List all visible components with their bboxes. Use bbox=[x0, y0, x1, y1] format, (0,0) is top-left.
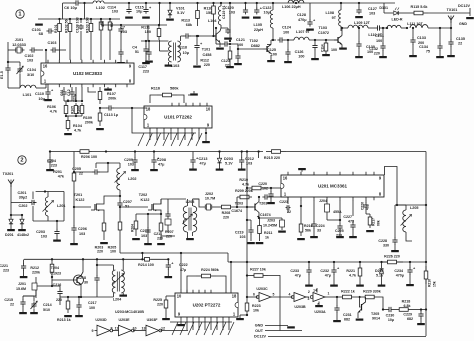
svg-text:R116: R116 bbox=[151, 87, 160, 91]
svg-text:T101: T101 bbox=[202, 48, 210, 52]
svg-text:39μ2: 39μ2 bbox=[19, 196, 27, 200]
svg-text:103: 103 bbox=[369, 12, 375, 16]
svg-text:C209: C209 bbox=[124, 158, 133, 162]
svg-text:C218: C218 bbox=[77, 276, 86, 280]
svg-text:C219: C219 bbox=[235, 231, 244, 235]
svg-text:C223: C223 bbox=[279, 200, 288, 204]
svg-text:47μ: 47μ bbox=[325, 274, 331, 278]
svg-text:103: 103 bbox=[239, 235, 245, 239]
svg-text:R112: R112 bbox=[200, 59, 209, 63]
svg-text:R213 1k: R213 1k bbox=[57, 318, 72, 322]
svg-text:C233: C233 bbox=[290, 269, 299, 273]
svg-text:103: 103 bbox=[41, 235, 47, 239]
svg-text:223: 223 bbox=[143, 70, 149, 74]
svg-text:22μH: 22μH bbox=[254, 28, 263, 32]
svg-text:R211: R211 bbox=[264, 231, 272, 235]
svg-text:100: 100 bbox=[331, 48, 337, 52]
svg-text:C135: C135 bbox=[456, 37, 465, 41]
svg-text:U203:MC14010B: U203:MC14010B bbox=[115, 310, 144, 314]
svg-text:C1674: C1674 bbox=[260, 213, 271, 217]
svg-text:R221: R221 bbox=[346, 269, 355, 273]
svg-text:33: 33 bbox=[317, 229, 321, 233]
svg-text:14: 14 bbox=[313, 289, 317, 293]
svg-text:200k: 200k bbox=[108, 97, 117, 101]
svg-text:47k: 47k bbox=[58, 175, 65, 179]
svg-text:C214: C214 bbox=[43, 303, 52, 307]
svg-text:R106: R106 bbox=[47, 105, 56, 109]
svg-text:T102: T102 bbox=[249, 39, 257, 43]
svg-text:C114: C114 bbox=[320, 44, 324, 52]
svg-text:L105: L105 bbox=[254, 23, 262, 27]
svg-text:8: 8 bbox=[110, 327, 112, 331]
svg-text:C123: C123 bbox=[221, 59, 230, 63]
svg-text:22: 22 bbox=[287, 210, 291, 214]
svg-text:220: 220 bbox=[56, 298, 62, 302]
svg-text:220: 220 bbox=[374, 52, 380, 56]
svg-text:U203C: U203C bbox=[256, 287, 268, 291]
svg-text:C1972: C1972 bbox=[318, 31, 329, 35]
svg-text:470μ: 470μ bbox=[298, 18, 307, 22]
svg-text:D201: D201 bbox=[5, 233, 14, 237]
svg-text:C124: C124 bbox=[282, 26, 292, 30]
svg-text:T201: T201 bbox=[74, 193, 82, 197]
svg-text:10: 10 bbox=[132, 327, 136, 331]
svg-text:C127: C127 bbox=[368, 7, 377, 11]
svg-text:T203: T203 bbox=[235, 202, 243, 206]
svg-text:16: 16 bbox=[43, 64, 48, 69]
svg-text:R206 100: R206 100 bbox=[81, 155, 97, 159]
svg-text:200k: 200k bbox=[85, 121, 94, 125]
svg-text:4.7k: 4.7k bbox=[349, 274, 357, 278]
svg-text:10μ: 10μ bbox=[264, 11, 271, 15]
svg-text:C205: C205 bbox=[72, 167, 81, 171]
svg-text:C120: C120 bbox=[225, 6, 234, 10]
svg-text:R218: R218 bbox=[402, 300, 411, 304]
svg-text:TX201: TX201 bbox=[3, 172, 14, 176]
svg-text:18: 18 bbox=[232, 294, 237, 299]
svg-text:C211: C211 bbox=[154, 232, 162, 236]
svg-text:C206: C206 bbox=[78, 227, 87, 231]
svg-text:U203D: U203D bbox=[95, 318, 107, 322]
svg-text:220k: 220k bbox=[32, 271, 41, 275]
svg-text:C104: C104 bbox=[27, 68, 37, 72]
svg-text:C225: C225 bbox=[335, 229, 344, 233]
svg-text:1: 1 bbox=[18, 12, 21, 18]
svg-text:R216: R216 bbox=[427, 279, 431, 287]
svg-text:22: 22 bbox=[10, 303, 14, 307]
svg-text:455A: 455A bbox=[333, 210, 342, 214]
svg-text:OUT: OUT bbox=[255, 329, 264, 333]
svg-text:C212: C212 bbox=[245, 157, 254, 161]
svg-text:L110 9T: L110 9T bbox=[368, 33, 382, 37]
svg-text:C215: C215 bbox=[4, 298, 13, 302]
svg-text:J202: J202 bbox=[205, 192, 213, 196]
svg-text:C132: C132 bbox=[369, 47, 378, 51]
svg-text:100: 100 bbox=[298, 55, 304, 59]
svg-text:103: 103 bbox=[27, 59, 33, 63]
svg-text:10μ: 10μ bbox=[183, 51, 190, 55]
svg-text:J204: J204 bbox=[319, 199, 327, 203]
svg-text:100: 100 bbox=[110, 250, 116, 254]
svg-text:10μ: 10μ bbox=[70, 6, 77, 10]
svg-text:R222 1k: R222 1k bbox=[341, 290, 356, 294]
svg-text:R108: R108 bbox=[76, 106, 80, 114]
svg-text:L104: L104 bbox=[208, 19, 217, 23]
svg-text:C217: C217 bbox=[88, 301, 97, 305]
svg-text:100: 100 bbox=[101, 21, 105, 27]
svg-text:R209 220k: R209 220k bbox=[235, 189, 254, 193]
svg-text:LED-R: LED-R bbox=[391, 18, 402, 22]
svg-text:103: 103 bbox=[141, 234, 147, 238]
svg-text:R110: R110 bbox=[204, 7, 213, 11]
svg-text:R102 56: R102 56 bbox=[64, 19, 68, 33]
svg-text:9: 9 bbox=[91, 329, 93, 333]
svg-text:C201: C201 bbox=[18, 191, 27, 195]
svg-text:12.0333: 12.0333 bbox=[12, 43, 26, 47]
svg-text:16: 16 bbox=[283, 176, 288, 181]
svg-text:5: 5 bbox=[273, 293, 275, 297]
svg-text:102: 102 bbox=[262, 187, 268, 191]
svg-text:L101: L101 bbox=[23, 93, 33, 97]
svg-text:J203: J203 bbox=[267, 219, 275, 223]
svg-text:13: 13 bbox=[141, 327, 145, 331]
svg-text:10μ: 10μ bbox=[388, 318, 394, 322]
svg-text:100: 100 bbox=[283, 31, 289, 35]
svg-text:R212: R212 bbox=[30, 266, 39, 270]
svg-text:2: 2 bbox=[20, 158, 23, 164]
svg-text:C228: C228 bbox=[378, 239, 387, 243]
svg-text:47μ: 47μ bbox=[180, 268, 186, 272]
svg-text:U202 PT2272: U202 PT2272 bbox=[193, 302, 221, 307]
svg-text:15k: 15k bbox=[432, 281, 436, 287]
svg-text:D882: D882 bbox=[251, 44, 260, 48]
svg-text:GND: GND bbox=[459, 22, 467, 26]
svg-text:C1923: C1923 bbox=[50, 272, 61, 276]
svg-text:5.1V: 5.1V bbox=[177, 11, 185, 15]
svg-text:DC12V: DC12V bbox=[458, 4, 471, 8]
svg-text:C226: C226 bbox=[360, 202, 364, 210]
svg-text:L102: L102 bbox=[96, 6, 105, 10]
svg-text:C232: C232 bbox=[320, 269, 329, 273]
svg-text:10: 10 bbox=[206, 107, 211, 112]
svg-text:J101: J101 bbox=[15, 38, 24, 42]
svg-text:R105: R105 bbox=[70, 106, 74, 114]
svg-text:R207: R207 bbox=[165, 230, 174, 234]
svg-text:T202: T202 bbox=[139, 193, 147, 197]
svg-text:T204: T204 bbox=[51, 266, 59, 270]
svg-text:C6: C6 bbox=[64, 6, 69, 10]
svg-text:47μ: 47μ bbox=[200, 161, 207, 165]
svg-text:R223: R223 bbox=[252, 304, 261, 308]
svg-text:1: 1 bbox=[328, 292, 330, 296]
svg-text:330: 330 bbox=[383, 244, 389, 248]
svg-text:C231: C231 bbox=[343, 313, 352, 317]
svg-text:C230: C230 bbox=[386, 314, 395, 318]
svg-text:L205: L205 bbox=[410, 206, 418, 210]
svg-text:R107: R107 bbox=[107, 92, 116, 96]
svg-text:5.1V: 5.1V bbox=[225, 162, 233, 166]
svg-text:U101 PT2262: U101 PT2262 bbox=[164, 114, 192, 119]
svg-text:L109 12T: L109 12T bbox=[354, 21, 371, 25]
svg-text:U303F: U303F bbox=[147, 318, 159, 322]
svg-text:11: 11 bbox=[115, 327, 119, 331]
svg-text:E1.5: E1.5 bbox=[0, 70, 4, 79]
svg-text:R215 220: R215 220 bbox=[264, 156, 280, 160]
svg-text:C126: C126 bbox=[295, 50, 304, 54]
svg-text:R104: R104 bbox=[73, 124, 83, 128]
svg-text:R113: R113 bbox=[181, 19, 190, 23]
svg-text:47μ: 47μ bbox=[295, 274, 301, 278]
svg-text:C121: C121 bbox=[236, 38, 245, 42]
svg-text:K122: K122 bbox=[76, 198, 85, 202]
svg-text:103: 103 bbox=[79, 232, 85, 236]
svg-text:U201 MC3361: U201 MC3361 bbox=[318, 183, 348, 188]
svg-text:3/10: 3/10 bbox=[27, 73, 34, 77]
svg-text:C117: C117 bbox=[138, 65, 147, 69]
svg-text:220: 220 bbox=[225, 64, 231, 68]
svg-text:223: 223 bbox=[51, 164, 57, 168]
svg-text:18: 18 bbox=[146, 107, 151, 112]
svg-text:682: 682 bbox=[344, 318, 350, 322]
svg-text:75: 75 bbox=[426, 50, 430, 54]
svg-text:C220: C220 bbox=[258, 182, 267, 186]
svg-text:J201: J201 bbox=[18, 282, 26, 286]
svg-text:TX101: TX101 bbox=[447, 8, 458, 12]
svg-text:R226 220: R226 220 bbox=[384, 255, 400, 259]
svg-text:5/10: 5/10 bbox=[43, 308, 50, 312]
svg-text:4.7k: 4.7k bbox=[74, 129, 82, 133]
svg-text:R216: R216 bbox=[304, 224, 313, 228]
svg-text:6: 6 bbox=[253, 293, 255, 297]
svg-text:223: 223 bbox=[3, 269, 9, 273]
svg-text:C110: C110 bbox=[35, 92, 44, 96]
svg-text:L107 9T: L107 9T bbox=[296, 30, 311, 34]
svg-text:T203: T203 bbox=[259, 202, 267, 206]
svg-text:C113 1μ: C113 1μ bbox=[104, 113, 119, 117]
svg-text:682: 682 bbox=[407, 317, 413, 321]
svg-text:9014: 9014 bbox=[372, 317, 380, 321]
svg-text:4148x2: 4148x2 bbox=[17, 233, 29, 237]
svg-text:T103: T103 bbox=[319, 26, 327, 30]
svg-text:220: 220 bbox=[157, 237, 163, 241]
svg-text:10μ: 10μ bbox=[136, 10, 143, 14]
svg-text:R208: R208 bbox=[222, 211, 231, 215]
svg-text:100: 100 bbox=[376, 39, 382, 43]
svg-text:10: 10 bbox=[177, 294, 182, 299]
svg-text:R201: R201 bbox=[53, 170, 62, 174]
svg-text:C134: C134 bbox=[419, 45, 429, 49]
svg-text:DC12V: DC12V bbox=[254, 335, 267, 339]
svg-text:10.245M: 10.245M bbox=[263, 224, 277, 228]
svg-text:56k: 56k bbox=[305, 229, 312, 233]
svg-text:U203A: U203A bbox=[314, 310, 326, 314]
svg-text:9T: 9T bbox=[332, 16, 337, 20]
svg-text:220: 220 bbox=[97, 250, 103, 254]
svg-text:100: 100 bbox=[271, 53, 277, 57]
svg-text:C224: C224 bbox=[316, 224, 325, 228]
svg-text:D203: D203 bbox=[224, 157, 233, 161]
svg-text:R224 560k: R224 560k bbox=[201, 268, 220, 272]
svg-text:68k: 68k bbox=[186, 23, 193, 27]
svg-text:220: 220 bbox=[166, 235, 172, 239]
svg-text:C128: C128 bbox=[297, 13, 306, 17]
svg-text:R204: R204 bbox=[130, 224, 134, 232]
svg-text:U102 MC2833: U102 MC2833 bbox=[73, 71, 103, 76]
svg-text:U203B: U203B bbox=[294, 305, 306, 309]
svg-text:103: 103 bbox=[112, 10, 118, 14]
svg-text:4.7k: 4.7k bbox=[50, 110, 58, 114]
svg-text:C222: C222 bbox=[179, 263, 188, 267]
svg-text:68k: 68k bbox=[376, 220, 380, 226]
svg-text:L204: L204 bbox=[113, 298, 122, 302]
svg-text:D101: D101 bbox=[379, 6, 388, 10]
svg-text:GND: GND bbox=[255, 324, 264, 328]
svg-text:10.7M: 10.7M bbox=[205, 197, 215, 201]
svg-text:C103: C103 bbox=[48, 41, 57, 45]
svg-text:C133: C133 bbox=[417, 36, 426, 40]
svg-text:C1674: C1674 bbox=[231, 209, 242, 213]
svg-text:C118: C118 bbox=[178, 46, 187, 50]
svg-text:15.6M: 15.6M bbox=[16, 287, 26, 291]
svg-text:T205: T205 bbox=[371, 312, 379, 316]
svg-text:C108 103: C108 103 bbox=[75, 17, 79, 33]
svg-text:C125: C125 bbox=[267, 48, 276, 52]
svg-text:V101: V101 bbox=[176, 7, 185, 11]
svg-text:L203: L203 bbox=[186, 200, 195, 204]
svg-text:C458: C458 bbox=[203, 53, 212, 57]
svg-text:5.1V: 5.1V bbox=[376, 274, 384, 278]
svg-text:R227 10k: R227 10k bbox=[250, 268, 267, 272]
svg-text:R111: R111 bbox=[141, 26, 151, 30]
svg-text:R109: R109 bbox=[83, 116, 92, 120]
svg-text:100: 100 bbox=[89, 306, 95, 310]
svg-text:51: 51 bbox=[135, 50, 139, 54]
svg-text:R225: R225 bbox=[153, 298, 162, 302]
svg-text:L106 22μH: L106 22μH bbox=[282, 5, 301, 9]
svg-text:K122: K122 bbox=[141, 198, 150, 202]
svg-text:C227: C227 bbox=[343, 215, 352, 219]
svg-text:R101: R101 bbox=[54, 24, 58, 33]
svg-text:560k: 560k bbox=[170, 87, 179, 91]
svg-text:3: 3 bbox=[308, 297, 310, 301]
svg-text:30: 30 bbox=[84, 281, 88, 285]
svg-text:4.7k: 4.7k bbox=[242, 183, 250, 187]
svg-text:L202: L202 bbox=[128, 177, 136, 181]
svg-text:C221: C221 bbox=[0, 264, 8, 268]
svg-text:22: 22 bbox=[458, 42, 462, 46]
svg-text:220: 220 bbox=[204, 63, 210, 67]
svg-text:C229: C229 bbox=[403, 313, 412, 317]
svg-text:470μ: 470μ bbox=[396, 274, 404, 278]
svg-text:150: 150 bbox=[206, 11, 212, 15]
svg-text:U203E: U203E bbox=[118, 318, 130, 322]
svg-text:C203: C203 bbox=[36, 230, 45, 234]
svg-text:C234: C234 bbox=[394, 269, 403, 273]
svg-text:R214 100: R214 100 bbox=[138, 263, 154, 267]
svg-text:R115 5.6k: R115 5.6k bbox=[411, 5, 429, 9]
svg-text:51: 51 bbox=[125, 205, 129, 209]
svg-text:12: 12 bbox=[161, 327, 165, 331]
svg-text:47μ: 47μ bbox=[158, 163, 165, 167]
svg-text:C102: C102 bbox=[25, 54, 34, 58]
svg-text:R217: R217 bbox=[371, 218, 375, 226]
svg-text:C12: C12 bbox=[67, 89, 71, 96]
svg-text:R103 103: R103 103 bbox=[85, 17, 89, 33]
svg-text:220: 220 bbox=[223, 216, 229, 220]
svg-text:C207: C207 bbox=[123, 200, 132, 204]
svg-text:R220 330k: R220 330k bbox=[363, 290, 382, 294]
svg-text:L108: L108 bbox=[326, 11, 334, 15]
svg-text:2: 2 bbox=[308, 290, 310, 294]
svg-text:C122: C122 bbox=[263, 6, 272, 10]
svg-text:103: 103 bbox=[128, 163, 134, 167]
svg-text:4: 4 bbox=[289, 293, 291, 297]
svg-text:C202: C202 bbox=[19, 204, 28, 208]
svg-text:10k: 10k bbox=[253, 309, 260, 313]
svg-text:220: 220 bbox=[157, 303, 163, 307]
